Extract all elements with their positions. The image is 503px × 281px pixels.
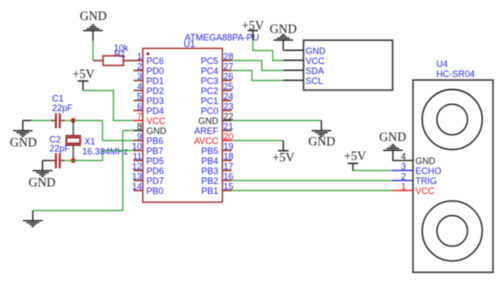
U1 pin 18 (PB4)	[201, 152, 233, 166]
wire +5V to ECHO	[353, 170, 393, 172]
svg-text:12: 12	[132, 162, 142, 172]
ground (U1 pin 22)	[312, 121, 332, 137]
wire U1 pin 28 PC5 to SDA	[232, 61, 284, 71]
svg-text:U1: U1	[184, 39, 196, 49]
svg-text:PC1: PC1	[201, 96, 219, 106]
svg-text:1: 1	[137, 52, 142, 62]
+5V supply (sensor)	[348, 163, 359, 170]
svg-text:21: 21	[223, 122, 233, 132]
resistor R1 10k	[93, 56, 134, 66]
svg-text:PB7: PB7	[146, 146, 163, 156]
I2C connector pin GND	[283, 46, 326, 56]
svg-text:PD7: PD7	[146, 176, 164, 186]
U1 pin 28 (PC5)	[201, 52, 234, 66]
svg-text:AVCC: AVCC	[194, 136, 219, 146]
U1 pin 19 (PB5)	[201, 142, 233, 156]
U1 pin 22 (GND)	[198, 112, 233, 126]
ground (I2C)	[274, 34, 294, 50]
svg-text:+5V: +5V	[344, 149, 366, 163]
svg-text:14: 14	[132, 182, 142, 192]
svg-text:GND: GND	[306, 46, 327, 56]
I2C connector module body	[304, 40, 393, 90]
wire C2 to ground	[43, 160, 51, 162]
svg-text:4: 4	[137, 82, 142, 92]
crystal X1 16.384MHz	[66, 121, 82, 161]
U1 pin 6 (PD4)	[134, 102, 164, 116]
svg-text:GND: GND	[198, 116, 219, 126]
wire C2 to crystal node	[65, 160, 73, 162]
svg-text:2: 2	[137, 62, 142, 72]
svg-text:3: 3	[401, 162, 406, 172]
+5V supply (I2C)	[248, 31, 259, 41]
svg-text:4: 4	[401, 152, 406, 162]
svg-text:PD2: PD2	[146, 86, 164, 96]
U1 pin 3 (PD1)	[134, 72, 164, 86]
U1 pin 16 (PB2)	[201, 172, 233, 186]
svg-text:8: 8	[137, 122, 142, 132]
svg-text:+5V: +5V	[242, 19, 264, 33]
svg-text:PC6: PC6	[146, 56, 164, 66]
svg-text:2: 2	[401, 172, 406, 182]
+5V supply (VCC)	[78, 81, 89, 91]
svg-text:PB1: PB1	[201, 186, 218, 196]
U1 pin 27 (PC4)	[201, 62, 234, 76]
wire +5V to I2C VCC	[253, 40, 283, 61]
I2C connector pin VCC	[283, 56, 325, 66]
U1 pin 8 (GND)	[134, 122, 167, 136]
U1 pin 2 (PD0)	[134, 62, 164, 76]
svg-text:ECHO: ECHO	[415, 166, 441, 176]
svg-text:PB2: PB2	[201, 176, 218, 186]
svg-text:GND: GND	[146, 126, 167, 136]
wire U1 pin 16 PB2 to TRIG	[232, 180, 393, 182]
U1 pin 1 (PC6)	[134, 52, 164, 66]
svg-text:PB0: PB0	[146, 186, 163, 196]
U1 pin 5 (PD3)	[134, 92, 164, 106]
svg-text:PD5: PD5	[146, 156, 164, 166]
U1 pin 1 marker dot	[146, 52, 149, 55]
svg-text:GND: GND	[28, 176, 55, 190]
svg-text:GND: GND	[10, 135, 37, 149]
wire U1 pin 15 PB1 to sensor VCC	[232, 190, 393, 192]
ground (C1)	[13, 121, 33, 137]
svg-text:PD4: PD4	[146, 106, 164, 116]
U1 pin 11 (PD5)	[133, 152, 164, 166]
svg-text:22pF: 22pF	[52, 103, 73, 113]
U1 pin 23 (PC0)	[201, 102, 234, 116]
svg-text:SCL: SCL	[306, 76, 324, 86]
svg-text:ATMEGA88PA-PU: ATMEGA88PA-PU	[185, 33, 259, 43]
U4 pin 1 (VCC)	[393, 182, 435, 196]
svg-text:22pF: 22pF	[49, 144, 70, 154]
svg-text:+5V: +5V	[272, 151, 294, 165]
U1 pin 26 (PC3)	[201, 72, 234, 86]
svg-text:GND: GND	[80, 9, 107, 23]
ground (sensor)	[383, 145, 403, 161]
svg-text:13: 13	[132, 172, 142, 182]
U1 pin 17 (PB3)	[201, 162, 233, 176]
svg-text:HC-SR04: HC-SR04	[436, 69, 475, 79]
svg-text:GND: GND	[270, 22, 297, 36]
svg-text:7: 7	[137, 112, 142, 122]
svg-text:VCC: VCC	[146, 116, 166, 126]
capacitor C1 22pF	[51, 113, 65, 128]
svg-text:17: 17	[223, 162, 233, 172]
wire C1 ground lead	[23, 120, 31, 122]
wire U1 pin 20 AVCC to +5V	[232, 140, 284, 142]
svg-text:TRIG: TRIG	[415, 176, 437, 186]
wire crystal node to U1 pin 10 (XTAL2)	[73, 151, 133, 161]
svg-text:6: 6	[137, 102, 142, 112]
svg-text:3: 3	[137, 72, 142, 82]
transducer circle (bottom)	[422, 201, 482, 261]
svg-text:PC4: PC4	[201, 66, 219, 76]
svg-text:PC0: PC0	[201, 106, 219, 116]
wire U1 pin 8 GND to ground	[33, 131, 134, 211]
svg-text:1: 1	[401, 182, 406, 192]
ground (U1 GND)	[23, 211, 43, 227]
U1 pin 24 (PC1)	[201, 92, 234, 106]
svg-text:X1: X1	[84, 136, 95, 146]
svg-text:9: 9	[137, 132, 142, 142]
svg-text:GND: GND	[379, 130, 406, 144]
svg-text:PC5: PC5	[201, 56, 219, 66]
svg-text:26: 26	[223, 72, 233, 82]
node B junction (XTAL2)	[71, 158, 76, 163]
node A junction (XTAL1)	[71, 118, 76, 123]
svg-text:16.384MHz: 16.384MHz	[82, 146, 129, 156]
U1 pin 20 (AVCC)	[194, 132, 233, 146]
U4 pin 2 (TRIG)	[393, 172, 437, 186]
svg-text:PC2: PC2	[201, 86, 219, 96]
svg-text:GND: GND	[308, 135, 335, 149]
U1 pin 4 (PD2)	[134, 82, 164, 96]
svg-text:PC3: PC3	[201, 76, 219, 86]
U1 pin 12 (PD6)	[132, 162, 164, 176]
wire +5V to U1 VCC pin 7	[83, 91, 134, 121]
svg-text:5: 5	[137, 92, 142, 102]
I2C connector pin SCL	[283, 76, 323, 86]
svg-text:19: 19	[223, 142, 233, 152]
wire C1 to ground	[31, 120, 51, 122]
U1 pin 14 (PB0)	[132, 182, 163, 196]
wire U1 pin 27 PC4 to SCL	[232, 71, 284, 81]
svg-text:23: 23	[223, 102, 233, 112]
+5V supply (AVCC)	[278, 141, 289, 151]
svg-text:GND: GND	[415, 156, 436, 166]
IC U1 ATMEGA88PA-PU body	[143, 48, 223, 202]
svg-text:VCC: VCC	[306, 56, 326, 66]
U1 pin 15 (PB1)	[201, 182, 233, 196]
U4 pin 4 (GND)	[393, 152, 436, 166]
wire C1 to crystal node	[65, 120, 73, 122]
svg-text:VCC: VCC	[415, 186, 435, 196]
U1 pin 10 (PB7)	[132, 142, 163, 156]
U1 pin 7 (VCC)	[134, 112, 166, 126]
svg-text:18: 18	[223, 152, 233, 162]
transducer circle (top)	[422, 90, 482, 150]
ground (R1 pulldown)	[83, 25, 103, 41]
svg-text:PB6: PB6	[146, 136, 163, 146]
ultrasonic sensor U4 HC-SR04 body	[413, 80, 493, 272]
svg-text:24: 24	[223, 92, 233, 102]
svg-text:PB3: PB3	[201, 166, 218, 176]
svg-text:PD0: PD0	[146, 66, 164, 76]
svg-text:25: 25	[223, 82, 233, 92]
svg-text:+5V: +5V	[72, 67, 94, 81]
wire crystal node to U1 pin 9 (XTAL1)	[73, 121, 133, 141]
U1 pin 25 (PC2)	[201, 82, 234, 96]
I2C connector pin SDA	[283, 66, 324, 76]
svg-text:U4: U4	[436, 59, 448, 69]
svg-text:11: 11	[133, 152, 142, 162]
ground (C2)	[33, 161, 53, 177]
U1 pin 13 (PD7)	[132, 172, 164, 186]
capacitor C2 22pF	[51, 153, 65, 168]
svg-text:AREF: AREF	[194, 126, 219, 136]
U1 pin 21 (AREF)	[194, 122, 233, 136]
svg-text:PD3: PD3	[146, 96, 164, 106]
svg-text:SDA: SDA	[306, 66, 325, 76]
svg-text:R1: R1	[114, 49, 126, 59]
svg-text:PB4: PB4	[201, 156, 218, 166]
svg-text:PD6: PD6	[146, 166, 164, 176]
wire U1 pin 22 GND to ground	[232, 120, 322, 122]
svg-text:PD1: PD1	[146, 76, 164, 86]
svg-text:PB5: PB5	[201, 146, 218, 156]
U1 pin 9 (PB6)	[134, 132, 164, 146]
U4 pin 3 (ECHO)	[393, 162, 442, 176]
wire GND to R1	[92, 41, 94, 61]
